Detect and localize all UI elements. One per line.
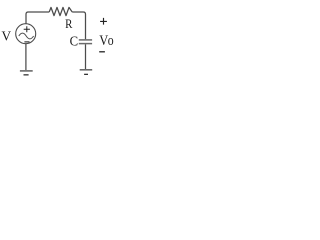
output plus sign bbox=[100, 18, 107, 25]
ground left: wide bar bbox=[20, 70, 33, 72]
wire from source top to resistor bbox=[26, 12, 49, 24]
ground left: small bar bbox=[24, 74, 29, 75]
ground right: small bar bbox=[84, 74, 88, 75]
svg-text:C: C bbox=[70, 34, 79, 49]
ground right: wide bar bbox=[80, 69, 93, 71]
capacitor C bottom plate bbox=[79, 43, 92, 45]
minus sign inside source bbox=[24, 41, 29, 43]
wire from capacitor to ground bbox=[85, 44, 87, 69]
output minus sign bbox=[99, 51, 105, 53]
capacitor C top plate bbox=[79, 39, 92, 41]
AC source V (circle) bbox=[16, 24, 36, 44]
plus sign inside source bbox=[24, 26, 30, 32]
resistor R bbox=[49, 7, 72, 15]
wire from source bottom to ground bbox=[25, 44, 27, 70]
svg-text:R: R bbox=[65, 17, 73, 31]
svg-text:o: o bbox=[108, 33, 114, 49]
AC source sine wave bbox=[19, 33, 34, 39]
wire from resistor to capacitor bbox=[72, 12, 85, 39]
svg-text:V: V bbox=[2, 28, 12, 43]
